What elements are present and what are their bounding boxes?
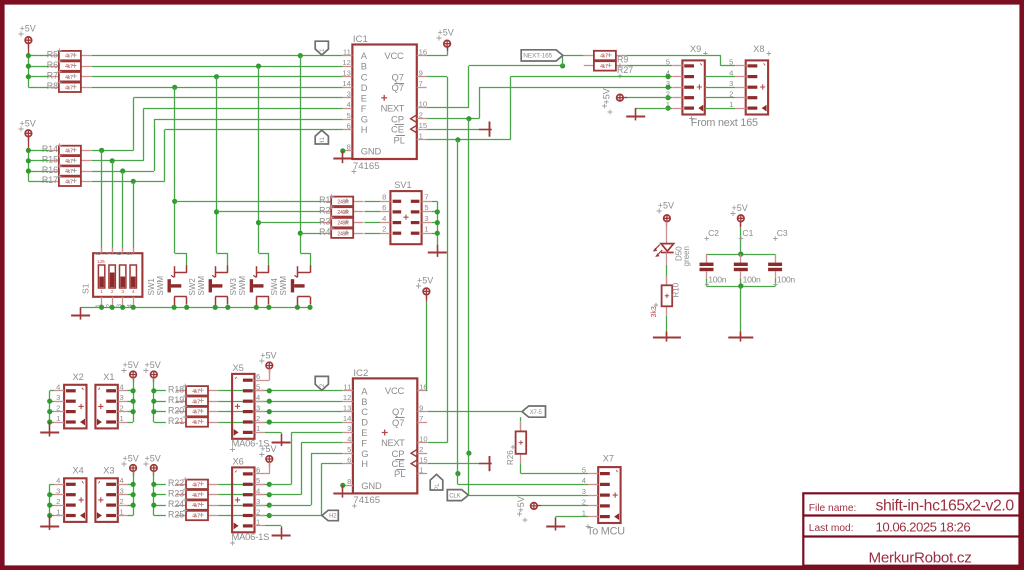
wire R8 left [39, 87, 49, 89]
wire R14 to riser [91, 150, 133, 152]
shift register IC1 74165 [352, 45, 416, 160]
junction cap rail bottom [738, 284, 743, 289]
svg-text:PL: PL [394, 134, 405, 145]
supply +5V (X9 pin2) [617, 94, 624, 101]
wire X1 pins to +5V [133, 378, 135, 422]
resistor R16 [49, 171, 59, 173]
svg-text:5: 5 [256, 383, 260, 392]
ground (X7 pin1) [555, 518, 557, 531]
svg-text:4k7: 4k7 [600, 54, 608, 60]
supply +5V (X6) [266, 456, 273, 463]
svg-text:1: 1 [256, 518, 260, 527]
svg-text:X7-5: X7-5 [530, 410, 543, 416]
svg-text:3: 3 [347, 90, 351, 99]
wire riser to IC1 row [143, 108, 145, 160]
shift register IC2 74165 [353, 378, 417, 493]
junction IC1 GND [340, 148, 345, 153]
svg-text:74165: 74165 [353, 495, 380, 506]
junction dots X9 rows [666, 74, 671, 79]
svg-text:4: 4 [582, 476, 586, 485]
svg-text:4: 4 [56, 476, 60, 485]
wire R2 to SV1 [364, 211, 380, 213]
wire IC1 CE to ground [427, 129, 479, 131]
svg-text:9: 9 [419, 403, 423, 412]
supply +5V (IC1 VCC) [444, 40, 451, 47]
svg-text:4k7: 4k7 [65, 85, 73, 91]
ground (capacitors) [740, 332, 742, 342]
wire staircase to IC2 [269, 494, 301, 496]
svg-text:H1: H1 [320, 137, 326, 145]
ground (IC1) [342, 151, 344, 163]
svg-text:2: 2 [419, 111, 423, 120]
svg-text:H: H [361, 458, 368, 469]
switch SW1 [186, 265, 188, 272]
junction NEXT-165 [560, 63, 565, 68]
svg-text:green: green [682, 246, 691, 266]
svg-text:+5V: +5V [145, 454, 161, 464]
wire drop to S1 pin [101, 150, 103, 247]
svg-text:7: 7 [424, 193, 428, 202]
svg-text:1: 1 [729, 100, 733, 109]
wire X9-X8 row1 [705, 108, 736, 110]
resistor R5 [49, 55, 59, 57]
ground (X9 pin1) [635, 108, 637, 120]
svg-text:2: 2 [419, 445, 423, 454]
resistor R19 [176, 401, 186, 403]
svg-text:CLK: CLK [449, 493, 460, 499]
svg-text:4k7: 4k7 [65, 149, 73, 155]
svg-text:R4: R4 [319, 227, 330, 237]
wire R1 to SV1 [364, 201, 380, 203]
wire cap top rail [707, 254, 776, 256]
svg-text:4k7: 4k7 [192, 482, 200, 488]
resistor R7 [49, 76, 59, 78]
junction dots +5V column 2 [26, 148, 31, 153]
svg-text:4k7: 4k7 [192, 503, 200, 509]
wire R15 to riser [91, 160, 143, 162]
svg-text:5: 5 [347, 445, 351, 454]
wire elbow to switch [217, 253, 228, 255]
svg-text:4k7: 4k7 [600, 64, 608, 70]
svg-text:2: 2 [111, 289, 114, 294]
resistor R21 [176, 422, 186, 424]
svg-text:X2: X2 [73, 372, 84, 382]
wire R6 to IC1 [91, 66, 342, 68]
svg-text:+5V: +5V [145, 360, 161, 370]
svg-text:74165: 74165 [353, 161, 380, 172]
svg-text:X9: X9 [690, 44, 701, 54]
svg-text:R18: R18 [168, 385, 184, 395]
supply +5V (X7 pin2) [531, 503, 538, 510]
wire net column vertical [258, 66, 260, 253]
svg-text:IC1: IC1 [353, 34, 368, 45]
junction dots X3 column [131, 482, 136, 487]
wire riser to IC1 row [164, 130, 166, 182]
supply +5V (R14-R17 pullups) [25, 130, 32, 137]
svg-text:C: C [361, 406, 368, 417]
svg-text:1: 1 [120, 414, 124, 423]
svg-text:4: 4 [347, 435, 351, 444]
capacitor C2 [706, 254, 708, 263]
svg-text:4k7: 4k7 [192, 399, 200, 405]
resistor R27 [584, 65, 594, 67]
svg-text:4k7: 4k7 [65, 64, 73, 70]
svg-text:1: 1 [100, 289, 103, 294]
ground (X2) [49, 422, 51, 437]
wire CLK net (IC1 CP) [427, 118, 479, 120]
svg-text:3: 3 [121, 289, 124, 294]
wire R16 left [39, 171, 49, 173]
svg-text:+5V: +5V [123, 360, 139, 370]
svg-text:D: D [361, 82, 368, 93]
svg-text:2: 2 [120, 497, 124, 506]
wire net column vertical [174, 87, 176, 253]
DIP switch S1 [93, 253, 142, 297]
svg-text:2: 2 [256, 414, 260, 423]
switch SW2 [227, 265, 229, 272]
svg-text:1: 1 [256, 424, 260, 433]
svg-text:PL: PL [435, 483, 441, 491]
wire +5V to LED [666, 222, 668, 244]
svg-text:H: H [361, 124, 368, 135]
wire R15 left [39, 160, 49, 162]
svg-text:5: 5 [729, 58, 733, 67]
svg-text:NEXT: NEXT [381, 437, 405, 448]
svg-text:Last mod:: Last mod: [809, 523, 854, 534]
junction dots R18 column [151, 388, 156, 393]
svg-text:10: 10 [419, 435, 427, 444]
svg-text:8: 8 [382, 193, 386, 202]
wire R5 to IC1 [91, 55, 342, 57]
wire net to R4 [300, 233, 321, 235]
svg-text:4: 4 [56, 383, 60, 392]
resistor R23 [176, 494, 186, 496]
svg-text:+5V: +5V [602, 88, 612, 104]
LED D50 [661, 244, 674, 252]
resistor R17 [49, 181, 59, 183]
svg-text:4: 4 [382, 214, 386, 223]
svg-text:4k7: 4k7 [192, 514, 200, 520]
flag H2 [322, 510, 338, 520]
svg-text:R2: R2 [319, 206, 330, 216]
svg-text:R19: R19 [168, 395, 184, 405]
resistor R3 [321, 222, 331, 224]
wire caps to ground [740, 286, 742, 332]
svg-text:1: 1 [424, 225, 428, 234]
junction at SV resistor row [172, 199, 177, 204]
svg-text:2: 2 [120, 403, 124, 412]
junction R17/S1 [131, 179, 136, 184]
svg-text:G: G [361, 114, 368, 125]
svg-text:4k7: 4k7 [65, 179, 73, 185]
svg-text:D: D [361, 417, 368, 428]
wire SV1 right column [432, 201, 438, 203]
svg-text:2: 2 [56, 403, 60, 412]
svg-text:+5V: +5V [20, 119, 36, 129]
ground (X4) [49, 516, 51, 531]
svg-text:100n: 100n [777, 274, 795, 284]
wire X2 pins to ground [50, 390, 54, 392]
svg-text:5: 5 [347, 111, 351, 120]
svg-text:6: 6 [256, 372, 260, 381]
resistor R15 [49, 160, 59, 162]
wire net to R1 [175, 201, 321, 203]
wire R10 to ground [666, 316, 668, 332]
svg-text:MA06-1S: MA06-1S [232, 531, 270, 542]
wire X9-X8 row2 [705, 97, 736, 99]
svg-text:5: 5 [256, 476, 260, 485]
svg-text:14: 14 [342, 79, 350, 88]
svg-text:3: 3 [347, 424, 351, 433]
svg-text:SW2: SW2 [188, 278, 197, 296]
ground (X6 pin1) [281, 528, 283, 540]
svg-text:3: 3 [56, 487, 60, 496]
svg-text:+5V: +5V [417, 276, 433, 286]
svg-text:File name:: File name: [809, 503, 857, 514]
svg-text:SWM: SWM [197, 276, 206, 296]
svg-text:VCC: VCC [385, 385, 405, 396]
svg-text:1: 1 [56, 507, 60, 516]
flag NEXT-165 [521, 50, 563, 61]
svg-text:4: 4 [256, 487, 260, 496]
connector X2 [64, 385, 86, 429]
svg-text:SWM: SWM [238, 276, 247, 296]
svg-text:3: 3 [729, 79, 733, 88]
svg-text:A: A [361, 50, 368, 61]
supply +5V (X5) [266, 362, 273, 369]
svg-text:100n: 100n [708, 274, 726, 284]
svg-text:9: 9 [419, 69, 423, 78]
svg-text:R21: R21 [168, 416, 184, 426]
resistor R1 [321, 201, 331, 203]
wire riser to IC1 row [154, 119, 156, 171]
svg-text:+5V: +5V [438, 28, 454, 38]
svg-text:100n: 100n [743, 274, 761, 284]
svg-text:R25: R25 [168, 509, 184, 519]
svg-text:Q7: Q7 [391, 71, 404, 82]
svg-text:From next 165: From next 165 [691, 117, 758, 129]
svg-text:SV1: SV1 [394, 180, 411, 190]
ground (IC2) [342, 485, 344, 497]
svg-text:shift-in-hc165x2-v2.0: shift-in-hc165x2-v2.0 [876, 498, 1015, 515]
resistor R2 [321, 211, 331, 213]
wire R27 to X9 pin5 [626, 65, 672, 67]
svg-text:B: B [361, 61, 367, 72]
wire IC2 CE to ground [427, 463, 478, 465]
svg-text:X7: X7 [603, 454, 614, 464]
wire net column vertical [300, 56, 302, 253]
svg-text:4k7: 4k7 [192, 410, 200, 416]
resistor R6 [49, 66, 59, 68]
svg-text:1: 1 [120, 507, 124, 516]
svg-text:X6: X6 [233, 457, 244, 467]
wire +5V to R22-R25 [153, 471, 155, 515]
svg-text:11: 11 [343, 383, 351, 392]
svg-text:R7: R7 [47, 71, 58, 81]
wire elbow to switch [175, 253, 187, 255]
svg-text:6: 6 [117, 251, 124, 255]
svg-text:3: 3 [56, 393, 60, 402]
junction dots SV1 column [435, 209, 440, 214]
switch SW3 [268, 265, 270, 272]
svg-text:R22: R22 [168, 478, 184, 488]
ground (IC1 CE) [479, 129, 492, 131]
svg-text:+5V: +5V [123, 454, 139, 464]
wire +5V to R18-R21 [153, 378, 155, 422]
svg-text:10.06.2025 18:26: 10.06.2025 18:26 [876, 520, 971, 535]
svg-text:3: 3 [120, 487, 124, 496]
svg-text:8: 8 [347, 143, 351, 152]
svg-text:SW1: SW1 [147, 278, 156, 296]
svg-text:R14: R14 [42, 144, 58, 154]
svg-text:R5: R5 [47, 49, 58, 59]
svg-text:7: 7 [419, 79, 423, 88]
svg-text:X1: X1 [103, 372, 114, 382]
svg-text:SW3: SW3 [229, 278, 238, 296]
svg-text:R6: R6 [47, 60, 58, 70]
svg-text:Q7: Q7 [392, 417, 405, 428]
svg-text:8: 8 [347, 477, 351, 486]
svg-text:SWM: SWM [279, 276, 288, 296]
svg-text:8: 8 [95, 251, 102, 255]
svg-text:4k7: 4k7 [65, 159, 73, 165]
svg-text:2: 2 [56, 497, 60, 506]
connector X8 [746, 60, 768, 114]
junction R14/S1 [99, 148, 104, 153]
svg-text:C: C [361, 71, 368, 82]
svg-text:CP: CP [391, 448, 404, 459]
svg-text:X3: X3 [103, 466, 114, 476]
svg-text:R17: R17 [42, 175, 58, 185]
svg-text:C3: C3 [777, 228, 788, 238]
svg-text:5: 5 [127, 251, 134, 255]
wire net column vertical [216, 77, 218, 253]
svg-text:5: 5 [424, 203, 428, 212]
svg-text:+5V: +5V [260, 351, 276, 361]
wire +5V to IC2 VCC [426, 295, 428, 301]
wire PL vertical to IC2 [457, 140, 459, 474]
resistor R24 [176, 505, 186, 507]
svg-text:1: 1 [419, 132, 423, 141]
wire R3 to SV1 [364, 222, 380, 224]
svg-text:B: B [361, 396, 367, 407]
supply +5V (LED D50) [664, 215, 671, 222]
supply +5V (R5-R8 pullups) [25, 37, 32, 44]
svg-text:4: 4 [256, 393, 260, 402]
connector X6 [232, 467, 254, 532]
wire net to R2 [217, 211, 322, 213]
junction dots X4 column [47, 492, 52, 497]
svg-text:6: 6 [347, 455, 351, 464]
resistor R10 [666, 276, 668, 286]
svg-text:13: 13 [343, 403, 351, 412]
svg-text:R16: R16 [42, 165, 58, 175]
wire elbow to switch [300, 253, 310, 255]
svg-text:SWM: SWM [156, 276, 165, 296]
svg-text:GND: GND [361, 480, 382, 491]
svg-text:CP: CP [391, 113, 404, 124]
svg-text:4: 4 [347, 100, 351, 109]
wire X4 pins to ground [50, 484, 54, 486]
resistor R20 [176, 411, 186, 413]
svg-text:R1: R1 [319, 195, 330, 205]
junction R15/S1 [110, 158, 115, 163]
junction at SV resistor row [214, 209, 219, 214]
wire X9 pin1 to ground [636, 108, 672, 110]
svg-text:H2: H2 [329, 514, 337, 520]
wire IC1 Q7 to IC2 NEXT [427, 76, 448, 78]
svg-text:4k7: 4k7 [192, 493, 200, 499]
wire staircase to IC2 [269, 515, 321, 517]
wire X3 pins to +5V [133, 471, 135, 515]
svg-text:+5V: +5V [260, 444, 276, 454]
svg-text:4: 4 [120, 476, 124, 485]
ground (SV1) [437, 245, 439, 257]
wire +5V to R5-R8 [28, 44, 30, 56]
svg-text:+5V: +5V [732, 203, 748, 213]
svg-text:+5V: +5V [658, 201, 674, 211]
svg-text:R26: R26 [506, 450, 515, 465]
ground (R10) [666, 332, 668, 342]
wire R8 to IC1 [91, 87, 342, 89]
svg-text:15: 15 [419, 455, 427, 464]
wire R4 to SV1 [364, 233, 380, 235]
svg-text:R10: R10 [671, 282, 680, 297]
svg-text:4: 4 [132, 289, 135, 294]
svg-text:15: 15 [419, 121, 427, 130]
wire X5 pin6 to +5V [269, 369, 271, 380]
wire cap bottom rail [707, 286, 776, 288]
svg-text:3: 3 [424, 214, 428, 223]
svg-text:3k3: 3k3 [651, 306, 658, 317]
svg-text:R3: R3 [319, 216, 330, 226]
wire LED to R10 [666, 252, 668, 264]
svg-text:R20: R20 [168, 405, 184, 415]
svg-text:4k7: 4k7 [192, 420, 200, 426]
junction cap rail top [738, 252, 743, 257]
resistor R22 [176, 484, 186, 486]
resistor R26 [520, 422, 522, 432]
svg-text:IC2: IC2 [353, 368, 368, 379]
junction dots GND rail [99, 305, 104, 310]
svg-text:R24: R24 [168, 499, 184, 509]
wire CLK to X7 pin3 [466, 451, 471, 456]
supply +5V (R18-R21) [151, 371, 158, 378]
svg-text:R23: R23 [168, 489, 184, 499]
flag net (IC2 pin A) [315, 376, 328, 390]
svg-text:5: 5 [582, 465, 586, 474]
wire R26 to X7 pin5 [520, 463, 522, 473]
supply +5V (R22-R25) [151, 465, 158, 472]
wire staircase to IC2 [269, 484, 291, 486]
wire X9-X8 row3 [705, 87, 736, 89]
svg-text:X4: X4 [73, 466, 84, 476]
svg-text:12: 12 [342, 58, 350, 67]
svg-text:5: 5 [666, 58, 670, 67]
resistor R8 [49, 87, 59, 89]
svg-text:SW4: SW4 [270, 278, 279, 296]
svg-text:11: 11 [343, 47, 351, 56]
svg-text:7: 7 [419, 414, 423, 423]
svg-text:6: 6 [347, 121, 351, 130]
svg-text:6: 6 [256, 466, 260, 475]
svg-text:3: 3 [256, 403, 260, 412]
svg-text:3: 3 [256, 497, 260, 506]
wire R7 to IC1 [91, 76, 342, 78]
svg-text:F: F [361, 103, 367, 114]
connector X4 [64, 478, 86, 522]
svg-text:4: 4 [120, 383, 124, 392]
